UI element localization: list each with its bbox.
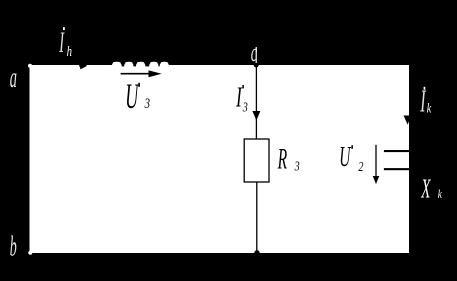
Ik arrowhead on right wire <box>404 116 410 125</box>
node c label <box>251 37 258 67</box>
svg-text:R: R <box>277 143 287 176</box>
svg-text:b: b <box>10 230 17 262</box>
svg-text:3: 3 <box>144 94 151 111</box>
U'2 prime <box>351 145 353 149</box>
U'3 arrow (voltage direction, top) <box>121 70 162 77</box>
U'2 arrow (voltage direction, right) <box>373 145 380 184</box>
Ik subscript k <box>427 100 432 116</box>
current Ih label (white, above top-left wire) <box>59 26 65 59</box>
node b label <box>10 230 17 262</box>
node c junction dot <box>254 62 259 67</box>
R3 subscript 3 <box>294 158 300 174</box>
notches between inductor bumps <box>122 65 160 66</box>
Xk label (white) <box>421 174 432 204</box>
wedge arrowhead of Ih on top wire <box>79 65 87 69</box>
wire resistor down to bottom <box>256 182 258 253</box>
svg-text:U: U <box>339 141 351 172</box>
I'3 arrowhead on wire <box>252 111 260 121</box>
U'3 prime <box>138 83 140 87</box>
capacitor Xk bottom plate <box>384 168 410 170</box>
node a terminal dot <box>28 64 32 68</box>
junction dot at bottom wire <box>254 250 259 255</box>
svg-text:3: 3 <box>242 99 248 115</box>
inductor bumps on top wire <box>112 62 169 65</box>
circuit interior (white panel, its boundary forms wires a-c-..-b loop) <box>30 65 410 253</box>
I'3 label <box>235 82 242 113</box>
wire stub above node c (white on black) <box>255 47 257 63</box>
R3 label <box>277 143 287 176</box>
Ih subscript h <box>67 42 72 59</box>
svg-text:X: X <box>421 174 432 204</box>
I'3 prime <box>242 85 244 88</box>
svg-text:2: 2 <box>358 159 363 175</box>
resistor R3 body <box>244 139 269 182</box>
wire c down to resistor <box>255 65 257 139</box>
svg-text:U: U <box>125 78 140 117</box>
Ih dot accent <box>63 27 65 30</box>
Ik prime accent <box>424 87 426 90</box>
U'3 label <box>125 78 140 117</box>
svg-text:I: I <box>420 83 427 118</box>
U'2 subscript 2 <box>358 159 363 175</box>
svg-text:k: k <box>427 100 432 116</box>
svg-text:3: 3 <box>294 158 300 174</box>
U'2 label <box>339 141 351 172</box>
svg-text:h: h <box>67 42 72 59</box>
I'3 subscript 3 <box>242 99 248 115</box>
node b terminal dot <box>28 251 32 255</box>
node a label <box>10 61 17 94</box>
svg-text:I: I <box>235 82 242 113</box>
capacitor Xk top plate <box>384 150 410 152</box>
svg-text:I: I <box>59 26 65 59</box>
Xk subscript k <box>438 188 443 202</box>
U'3 subscript 3 <box>144 94 151 111</box>
svg-text:a: a <box>10 61 17 94</box>
Ik label (white) <box>420 83 427 118</box>
